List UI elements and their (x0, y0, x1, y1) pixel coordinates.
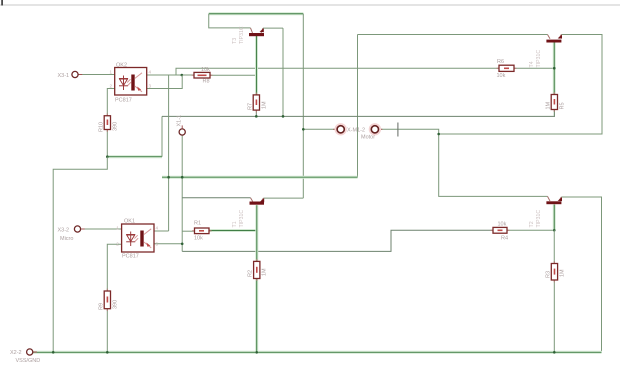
svg-text:T4: T4 (529, 61, 535, 67)
wire y68 long (176, 68, 499, 75)
wire T4 base chain (553, 43, 556, 95)
svg-text:T2: T2 (529, 221, 535, 227)
wire X3-2 to OK1 (81, 228, 122, 230)
wire OK1 pin2 (107, 244, 121, 291)
wire T1 base chain (255, 205, 258, 261)
junction gnd left (52, 351, 55, 354)
wire R9 bottom (106, 309, 108, 353)
transistor T4 (546, 35, 562, 43)
svg-text:390: 390 (113, 122, 119, 131)
wire R7 bottom (255, 110, 257, 116)
svg-text:OK1: OK1 (124, 219, 135, 225)
svg-text:VSS/GND: VSS/GND (16, 358, 41, 364)
junction pin3/spine (181, 243, 184, 246)
svg-text:X2-2: X2-2 (10, 350, 22, 356)
svg-text:R10: R10 (99, 122, 105, 132)
junction R4/T2base (553, 229, 556, 232)
svg-text:R6: R6 (497, 59, 504, 65)
wire T2 emitter down (561, 197, 601, 351)
wire R4 out (507, 229, 554, 231)
svg-text:R3: R3 (546, 271, 552, 278)
svg-text:R7: R7 (248, 103, 254, 110)
svg-text:X1-1: X1-1 (177, 115, 183, 127)
wire top rail (209, 12, 304, 15)
svg-text:10k: 10k (497, 73, 506, 79)
svg-text:390: 390 (113, 300, 119, 309)
svg-text:1M: 1M (546, 101, 552, 109)
wire T2 base chain (553, 205, 556, 231)
junction T3e/rail116 (282, 115, 285, 118)
svg-text:R4: R4 (501, 236, 508, 242)
optocoupler OK1 (122, 224, 154, 252)
svg-text:X3-2: X3-2 (58, 228, 70, 234)
resistor R4 (493, 227, 507, 233)
svg-text:R5: R5 (560, 102, 566, 109)
wire T2 base to R3 (553, 230, 555, 263)
wire motor left (303, 128, 337, 130)
junction R2/gnd (255, 351, 258, 354)
net stub marker (397, 123, 399, 137)
pad X3-2 (74, 226, 80, 232)
wire gnd left (53, 157, 107, 353)
svg-text:TIP31C: TIP31C (536, 50, 542, 68)
junction T4e/motor (437, 133, 440, 136)
junction R6/T4base (553, 67, 556, 70)
wire R10 top (107, 89, 146, 116)
pad X1-1 (179, 129, 185, 135)
svg-text:1M: 1M (262, 268, 268, 276)
transistor T3 (249, 28, 283, 36)
svg-text:1M: 1M (262, 101, 268, 109)
pad X2-2 (27, 349, 33, 355)
wire R10 out (107, 155, 162, 158)
wire OK2 pin3 (147, 75, 183, 89)
wire spine x168 (168, 75, 170, 231)
svg-text:R8: R8 (203, 78, 210, 84)
wire T3 collector riser (209, 14, 251, 28)
wire R1 out (209, 229, 257, 232)
resistor R10 (104, 116, 110, 130)
junction pin4/riser (181, 74, 184, 77)
svg-text:X-M1-2: X-M1-2 (347, 127, 365, 133)
pad X-M1 left (336, 124, 346, 134)
wire node A vertical x303 (302, 14, 304, 198)
resistor R5 (551, 95, 557, 110)
junction R7/rail116 (255, 115, 258, 118)
pad pin stubs (79, 74, 83, 76)
junction spine168/net177 (167, 176, 170, 179)
pad X3-1 (72, 71, 78, 77)
resistor R3 (551, 264, 557, 281)
node A junction (302, 128, 305, 131)
svg-text:OK2: OK2 (116, 63, 127, 69)
wire rail y116 (162, 110, 555, 117)
wire bottom rail (33, 351, 602, 354)
pad X-M1 right (370, 124, 380, 134)
wire R6 out (514, 67, 554, 69)
wire OK1 pin4 (154, 230, 169, 232)
junction R10 (106, 155, 109, 158)
resistor R7 (253, 95, 259, 110)
wire net y177 (162, 176, 358, 179)
resistor R8 (194, 72, 210, 78)
svg-text:R1: R1 (194, 220, 201, 226)
resistor R6 (499, 65, 514, 71)
wire T4 collector (358, 34, 548, 36)
wire T4 emitter run (439, 35, 602, 135)
wire R3 bottom (553, 280, 555, 352)
wire R10 bottom (106, 130, 108, 157)
junction R9/gnd (106, 351, 109, 354)
svg-text:Motor: Motor (361, 134, 375, 140)
junction R1/T1base (255, 229, 258, 232)
svg-text:10k: 10k (201, 67, 210, 73)
frame top line (0, 4, 620, 6)
svg-text:R2: R2 (248, 270, 254, 277)
resistor R9 (104, 291, 110, 309)
wire T3 emitter drop (282, 28, 284, 116)
junction spine182/net177 (181, 176, 184, 179)
wire x358 riser (357, 35, 359, 178)
wire R2 bottom (255, 279, 258, 353)
svg-text:X3-1: X3-1 (58, 73, 70, 79)
svg-text:1M: 1M (560, 269, 566, 277)
transistor T2 (546, 196, 562, 204)
svg-text:PC817: PC817 (122, 254, 139, 260)
svg-text:10k: 10k (194, 236, 203, 242)
wire motor right (379, 129, 548, 196)
wire spine x182 upper (181, 136, 183, 252)
svg-text:R9: R9 (99, 303, 105, 310)
junction R8/T3base (255, 74, 258, 77)
svg-text:PC817: PC817 (115, 98, 132, 104)
svg-text:TIP31C: TIP31C (239, 210, 245, 228)
wire x162 riser (161, 116, 163, 156)
wire T3 base chain (255, 36, 258, 95)
resistor R2 (254, 261, 260, 278)
svg-text:Micro: Micro (60, 236, 73, 242)
junction R3/gnd (553, 351, 556, 354)
wire OK1 pin3 (154, 243, 182, 245)
svg-text:10k: 10k (498, 221, 507, 227)
wire X3-1 to OK2 (79, 74, 115, 76)
wire T1 collector (182, 197, 250, 199)
resistor R1 (195, 228, 210, 234)
resistor pin stubs (107, 68, 554, 311)
frame tick (1, 0, 3, 6)
svg-text:TIP31C: TIP31C (536, 210, 542, 228)
optocoupler OK2 (115, 68, 147, 96)
wire R8 out (210, 74, 257, 76)
transistor T1 (250, 198, 265, 205)
svg-text:TIP31C: TIP31C (239, 26, 245, 44)
wire OK2 pin4 (147, 74, 194, 76)
svg-text:T3: T3 (232, 38, 238, 44)
wire R1 in (182, 230, 194, 232)
wire T1 emitter (264, 197, 304, 199)
svg-text:T1: T1 (232, 221, 238, 227)
wire R5 bottom (553, 110, 555, 117)
